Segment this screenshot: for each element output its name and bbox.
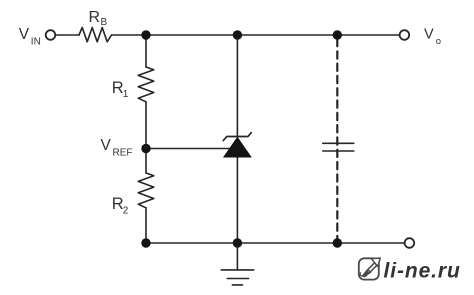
node top junction R1 — [141, 30, 150, 39]
terminal bottom right — [405, 238, 415, 248]
svg-text:R: R — [89, 9, 101, 26]
wire top rail — [112, 34, 400, 36]
label Vo — [424, 27, 441, 47]
node VREF — [141, 144, 150, 153]
svg-text:IN: IN — [31, 37, 41, 48]
svg-text:2: 2 — [123, 206, 129, 217]
wire capacitor dashed branch — [336, 39, 338, 243]
wire VREF to zener — [146, 148, 234, 150]
wire VIN to RB — [55, 34, 79, 36]
svg-text:REF: REF — [113, 148, 133, 159]
node bottom junction R2 — [141, 238, 150, 247]
svg-text:V: V — [19, 26, 30, 43]
svg-text:li-ne.ru: li-ne.ru — [384, 260, 461, 283]
wire R1 top lead — [145, 35, 147, 67]
node bottom junction ground — [233, 238, 242, 247]
zener diode D1 — [223, 133, 251, 157]
svg-text:V: V — [424, 27, 434, 43]
terminal VIN — [46, 30, 56, 40]
wire R2 top lead — [145, 149, 147, 174]
wire zener bottom lead — [236, 157, 238, 243]
svg-text:o: o — [436, 36, 441, 47]
node bottom junction capacitor — [333, 238, 342, 247]
svg-text:1: 1 — [123, 89, 129, 100]
terminal Vo — [400, 30, 410, 40]
resistor R1 — [138, 67, 154, 102]
node top junction capacitor — [333, 30, 342, 39]
svg-text:V: V — [101, 137, 112, 154]
label R2 — [112, 195, 129, 217]
label VREF — [101, 137, 133, 159]
wire R2 bottom lead — [145, 208, 147, 243]
capacitor C — [323, 143, 354, 151]
resistor R2 — [138, 173, 154, 208]
wire R1 bottom lead — [145, 102, 147, 149]
resistor RB — [79, 28, 112, 42]
wire zener top lead — [236, 35, 238, 137]
label VIN — [19, 26, 41, 47]
label R1 — [112, 79, 129, 100]
ground — [221, 243, 254, 285]
node top junction zener — [233, 30, 242, 39]
wire bottom rail — [146, 242, 405, 244]
label RB — [89, 9, 108, 28]
svg-text:B: B — [101, 17, 108, 28]
logo li-ne.ru — [359, 258, 461, 283]
